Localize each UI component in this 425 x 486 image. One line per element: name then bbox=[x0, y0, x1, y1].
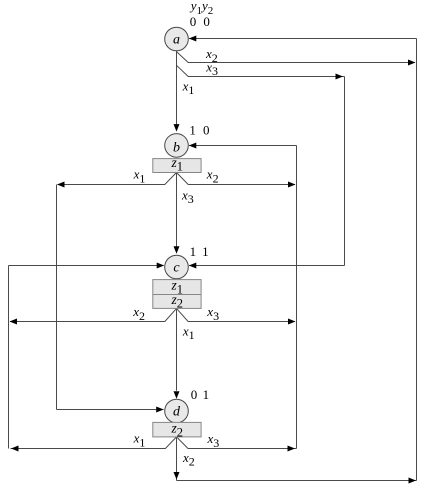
svg-text:1: 1 bbox=[190, 244, 197, 259]
wire c branch x3 right to feeder C bbox=[177, 308, 296, 321]
state a node circle bbox=[165, 27, 189, 51]
arrowhead d-x2 down at bottom corner bbox=[174, 472, 180, 480]
arrowhead into c from right (points left) bbox=[189, 263, 197, 269]
wire into state a from right bbox=[189, 38, 417, 40]
arrowhead c-x2 at feeder A (points left) bbox=[10, 319, 18, 325]
svg-text:1: 1 bbox=[202, 244, 209, 259]
wire d branch x2 down bbox=[176, 437, 178, 481]
svg-text:x3: x3 bbox=[206, 304, 219, 323]
wire bottom horizontal to right outer feeder bbox=[177, 480, 417, 482]
wire d branch x3 right to feeder C corner bbox=[177, 437, 297, 449]
arrowhead into a (points left) bbox=[189, 36, 197, 42]
svg-text:1: 1 bbox=[189, 123, 196, 138]
wire a branch x3 to feeder D corner bbox=[177, 65, 345, 76]
svg-text:c: c bbox=[173, 261, 180, 276]
arrowhead into c top (points down) bbox=[174, 246, 180, 254]
svg-text:d: d bbox=[173, 405, 181, 420]
svg-text:0: 0 bbox=[203, 14, 210, 29]
output box z2 of d bbox=[153, 422, 201, 437]
svg-text:x3: x3 bbox=[181, 187, 194, 206]
wire feeder D vertical bbox=[344, 77, 346, 266]
svg-text:x1: x1 bbox=[133, 167, 146, 186]
wire right outer feeder vertical (d to a) bbox=[416, 39, 418, 481]
svg-text:x2: x2 bbox=[132, 304, 145, 323]
arrowhead c-x3 at feeder C (points right) bbox=[288, 319, 296, 325]
svg-text:x2: x2 bbox=[206, 167, 219, 186]
wire feeder C vertical (up to b) bbox=[296, 146, 298, 449]
arrowhead a-x3 at feeder D corner (points right) bbox=[336, 74, 344, 80]
wire c branch x1 down to d bbox=[176, 308, 178, 390]
svg-text:0: 0 bbox=[190, 14, 197, 29]
svg-text:b: b bbox=[173, 141, 180, 156]
wire feeder B vertical bbox=[56, 185, 58, 410]
wire feeder D into c from right bbox=[189, 265, 345, 267]
output box z1 of b bbox=[153, 159, 201, 173]
arrowhead a-x2 at right outer feeder (points right) bbox=[408, 60, 416, 66]
svg-text:0: 0 bbox=[191, 387, 198, 402]
svg-text:x1: x1 bbox=[182, 323, 195, 342]
svg-text:x2: x2 bbox=[182, 450, 195, 469]
output box z1 z2 of c (outer) bbox=[153, 280, 201, 309]
state b node circle bbox=[165, 134, 189, 158]
arrowhead d-x1 at feeder A corner (points left) bbox=[11, 446, 19, 452]
wire b branch x3 down to c bbox=[176, 173, 178, 247]
arrowhead b-x1 at feeder B corner (points left) bbox=[57, 182, 65, 188]
output box divider of c bbox=[153, 294, 201, 296]
wire a branch x1 down to b bbox=[176, 51, 178, 125]
svg-text:x1: x1 bbox=[133, 431, 146, 450]
arrowhead at bottom-right corner (points right) bbox=[409, 478, 417, 484]
arrowhead into b top (points down) bbox=[174, 124, 180, 132]
wire a branch x2 to right outer feeder bbox=[177, 52, 416, 63]
wire d branch x1 left to feeder A corner bbox=[11, 437, 177, 449]
arrowhead into b from right (points left) bbox=[189, 143, 197, 149]
wire into b from right bbox=[189, 145, 297, 147]
state d node circle bbox=[165, 399, 189, 423]
wire b branch x2 right to feeder C bbox=[177, 173, 296, 185]
wire c branch x2 left to feeder A bbox=[10, 308, 177, 321]
svg-text:x1: x1 bbox=[182, 78, 195, 97]
arrowhead into c from left (points right) bbox=[157, 263, 165, 269]
svg-text:x3: x3 bbox=[207, 431, 220, 450]
state c node circle bbox=[165, 255, 189, 279]
svg-text:a: a bbox=[173, 33, 180, 48]
arrowhead into d from left (points right) bbox=[156, 407, 164, 413]
wire feeder B into d from left bbox=[57, 409, 164, 411]
wire feeder A vertical bbox=[8, 266, 10, 449]
arrowhead b-x2 at feeder C (points right) bbox=[288, 182, 296, 188]
arrowhead into d top (points down) bbox=[174, 391, 180, 399]
svg-text:1: 1 bbox=[203, 387, 210, 402]
wire feeder A into c from left bbox=[9, 265, 164, 267]
svg-text:0: 0 bbox=[203, 123, 210, 138]
wire b branch x1 left to feeder B corner bbox=[58, 173, 177, 185]
arrowhead d-x3 at feeder C corner (points right) bbox=[288, 446, 296, 452]
